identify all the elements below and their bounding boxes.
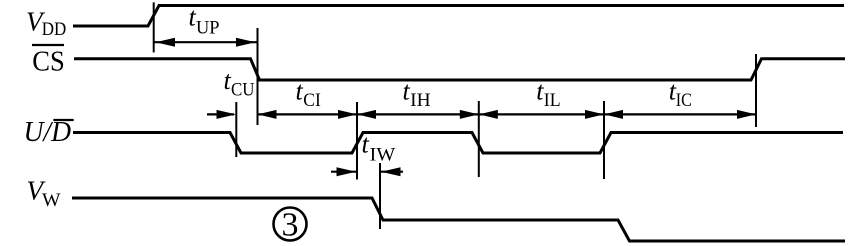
- circled figure number 3: [274, 207, 307, 244]
- label tIL: [536, 77, 560, 111]
- tick at U/D second fall: [478, 101, 480, 177]
- svg-text:IH: IH: [410, 90, 431, 111]
- tick at CS fall: [257, 28, 259, 125]
- dimension arrow tUP (between VDD rise and CS fall): [155, 38, 257, 47]
- svg-text:DD: DD: [42, 19, 67, 40]
- dimension arrow tCI (CS fall to U/D rise): [258, 110, 358, 119]
- signal label VDD: [26, 7, 66, 41]
- svg-text:CI: CI: [303, 90, 321, 111]
- svg-text:IL: IL: [544, 90, 561, 111]
- tick at VW first fall: [379, 163, 381, 229]
- signal label VW: [27, 176, 61, 211]
- svg-text:t: t: [296, 77, 304, 106]
- signal label U/D (D active low, overline): [24, 117, 74, 148]
- label tCU: [224, 66, 255, 101]
- dimension arrow tIL (U/D low time): [479, 110, 604, 119]
- dimension arrow tIW outside pieces (U/D rise to VW fall): [331, 167, 403, 176]
- dimension arrow tIC (U/D rise to CS rise): [604, 110, 756, 119]
- waveform VDD: [73, 6, 844, 27]
- label tUP: [189, 3, 220, 39]
- svg-text:UP: UP: [196, 17, 220, 38]
- svg-text:3: 3: [282, 207, 299, 244]
- dimension arrow tIH (U/D high time): [357, 110, 479, 119]
- svg-text:t: t: [362, 129, 370, 158]
- tick at VDD rise: [153, 2, 155, 52]
- tick at U/D first fall: [235, 102, 237, 157]
- label tIH: [403, 77, 431, 111]
- svg-text:CS: CS: [32, 46, 65, 77]
- dimension arrow tCU left outside piece: [207, 110, 236, 119]
- tick at U/D rise: [356, 102, 358, 180]
- tick at U/D second rise: [603, 101, 605, 179]
- waveform VW (three stepped levels): [72, 198, 845, 241]
- label tCI: [296, 77, 321, 111]
- waveform CS: [74, 59, 845, 80]
- tick at CS rise: [755, 54, 757, 127]
- svg-text:CU: CU: [231, 80, 255, 101]
- svg-text:U/D: U/D: [24, 117, 72, 148]
- signal label CS (active low, overline): [32, 45, 65, 77]
- svg-text:IC: IC: [676, 90, 692, 111]
- svg-text:IW: IW: [370, 145, 396, 166]
- label tIC: [669, 77, 692, 111]
- svg-text:W: W: [42, 190, 61, 211]
- label tIW: [362, 129, 396, 165]
- waveform U/D: [73, 133, 843, 154]
